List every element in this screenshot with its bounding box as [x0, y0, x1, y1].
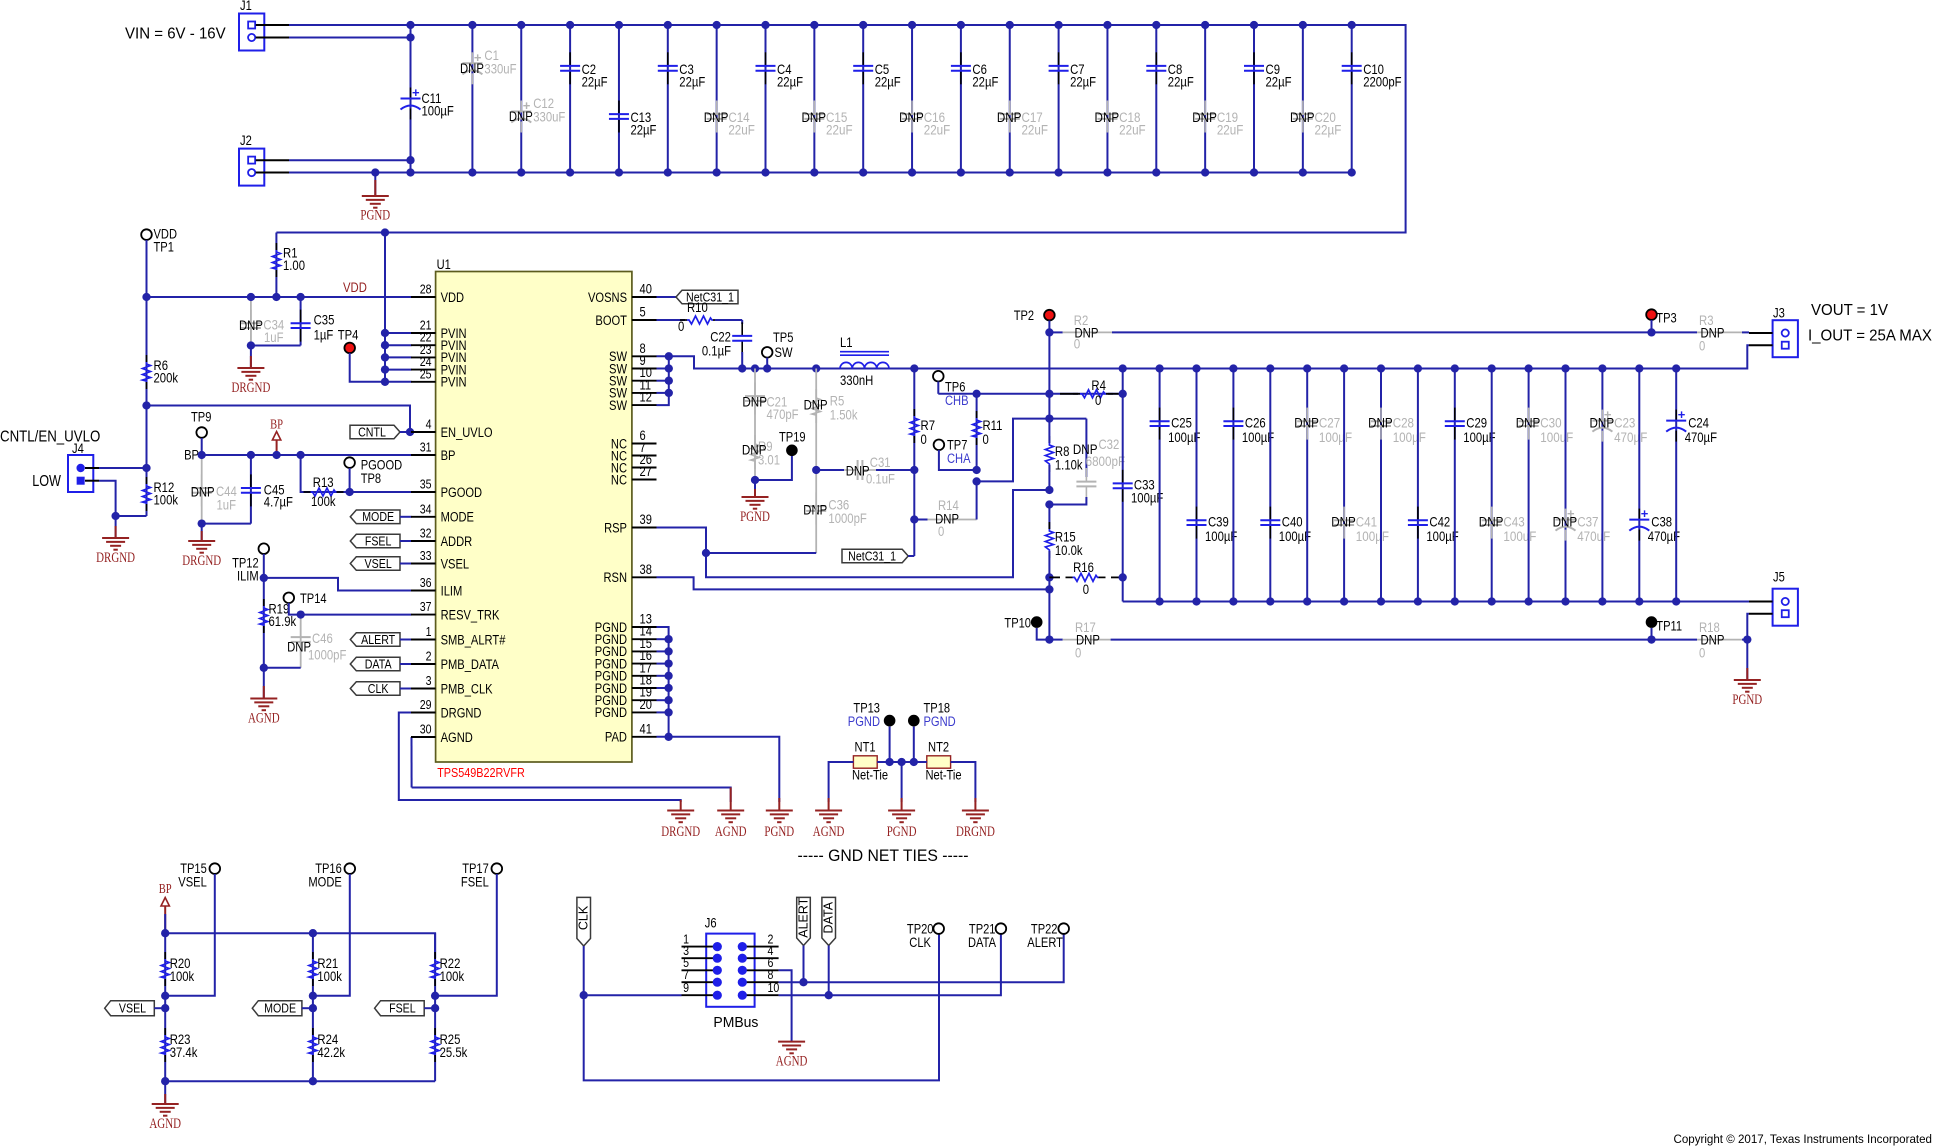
junction — [1192, 364, 1200, 372]
svg-text:330uF: 330uF — [484, 62, 516, 77]
svg-text:DATA: DATA — [822, 901, 836, 933]
pin 22 PVIN — [411, 344, 436, 346]
svg-text:0: 0 — [921, 432, 928, 447]
pin 40 VOSNS — [632, 296, 657, 298]
svg-text:AGND: AGND — [813, 824, 845, 840]
junction — [761, 21, 769, 29]
capacitor C42 — [1417, 369, 1419, 602]
resistor R20 — [164, 933, 166, 996]
resistor R21 — [312, 933, 314, 996]
svg-text:200k: 200k — [154, 371, 179, 386]
wire DATA net — [779, 994, 829, 996]
capacitor C27 (DNP) — [1306, 369, 1308, 602]
resistor R3 (DNP) — [1652, 331, 1698, 333]
capacitor C17 (DNP) — [1009, 25, 1011, 173]
svg-text:AGND: AGND — [248, 711, 280, 727]
junction CHA node — [972, 466, 980, 474]
net tag VSEL — [350, 557, 400, 571]
svg-text:Copyright © 2017, Texas Instru: Copyright © 2017, Texas Instruments Inco… — [1674, 1132, 1933, 1146]
net tag DATA vertical — [822, 897, 836, 945]
svg-text:28: 28 — [420, 282, 432, 297]
resistor R17 (DNP) — [1049, 639, 1062, 641]
test point TP1 — [141, 229, 152, 240]
svg-text:10: 10 — [768, 980, 780, 995]
wire BP net — [202, 454, 412, 456]
wire VDD net — [147, 296, 412, 298]
svg-text:0.1uF: 0.1uF — [866, 472, 895, 487]
svg-text:EN_UVLO: EN_UVLO — [441, 425, 493, 440]
pin 12 SW — [632, 404, 657, 406]
wire net-tie DRGND side — [951, 762, 976, 802]
pin 1 SMB_ALRT# — [411, 639, 436, 641]
junction — [1006, 21, 1014, 29]
capacitor C34 (DNP) — [250, 297, 252, 346]
junction — [1488, 364, 1496, 372]
test point TP7 — [934, 440, 945, 451]
junction — [1598, 364, 1606, 372]
pin 2 PMB_DATA — [411, 663, 436, 665]
svg-text:22µF: 22µF — [875, 75, 901, 90]
svg-text:CNTL/EN_UVLO: CNTL/EN_UVLO — [0, 429, 100, 446]
svg-text:TP9: TP9 — [191, 410, 211, 425]
svg-text:VSEL: VSEL — [441, 556, 470, 571]
pin 30 AGND — [411, 736, 436, 738]
svg-text:TP10: TP10 — [1004, 616, 1031, 631]
ground AGND pin30 — [717, 810, 744, 812]
junction — [1377, 364, 1385, 372]
svg-text:CNTL: CNTL — [358, 425, 386, 439]
wire C34/C35 bottom — [251, 345, 301, 347]
svg-text:TP5: TP5 — [773, 330, 793, 345]
net tag MODE — [252, 1001, 302, 1016]
svg-text:1: 1 — [426, 624, 432, 639]
svg-text:BP: BP — [270, 417, 283, 432]
svg-text:TP2: TP2 — [1014, 308, 1034, 323]
svg-text:PGND: PGND — [595, 705, 627, 720]
svg-text:100uF: 100uF — [1503, 529, 1536, 545]
svg-text:PGND: PGND — [740, 509, 770, 525]
svg-text:25: 25 — [420, 366, 432, 381]
svg-text:1.50k: 1.50k — [830, 408, 858, 423]
junction — [1250, 21, 1258, 29]
wire PGND bottom rail — [289, 172, 1355, 174]
svg-text:DNP: DNP — [1553, 515, 1578, 531]
svg-text:100k: 100k — [317, 969, 342, 984]
svg-text:35: 35 — [420, 477, 432, 492]
junction — [615, 21, 623, 29]
svg-text:VIN = 6V - 16V: VIN = 6V - 16V — [125, 26, 226, 43]
svg-text:22µF: 22µF — [679, 75, 705, 90]
wire DRGND pin29 — [399, 713, 681, 803]
pin 37 RESV_TRK — [411, 614, 436, 616]
svg-text:TP1: TP1 — [154, 240, 174, 255]
resistor R9 (DNP) — [754, 435, 756, 442]
junction VSEL node — [161, 992, 169, 1000]
svg-text:C26: C26 — [1245, 416, 1266, 431]
svg-text:DNP: DNP — [899, 110, 924, 126]
svg-text:DNP: DNP — [704, 110, 729, 126]
net tag NetC31_1 divider — [842, 549, 908, 563]
junction — [713, 21, 721, 29]
pin 4 EN_UVLO — [411, 431, 436, 433]
net tag NetC31_1 VOSNS — [657, 296, 677, 298]
svg-text:CLK: CLK — [368, 682, 389, 696]
junction — [1340, 364, 1348, 372]
svg-text:+: + — [1678, 407, 1686, 422]
pin 21 PVIN — [411, 332, 436, 334]
net tag CLK — [350, 682, 400, 696]
svg-text:1uF: 1uF — [217, 498, 237, 513]
resistor R25 — [434, 996, 436, 1081]
junction — [1201, 21, 1209, 29]
svg-text:AGND: AGND — [149, 1116, 181, 1132]
svg-text:9: 9 — [683, 980, 689, 995]
junction — [1672, 364, 1680, 372]
svg-text:C42: C42 — [1429, 515, 1450, 530]
capacitor C19 (DNP) — [1204, 25, 1206, 173]
capacitor C24 — [1675, 369, 1677, 602]
svg-text:DNP: DNP — [460, 61, 484, 76]
svg-text:J6: J6 — [705, 916, 717, 931]
pin 27 NC — [632, 479, 657, 481]
svg-text:DRGND: DRGND — [661, 824, 700, 840]
capacitor C33 — [1122, 369, 1124, 602]
pin 14 PGND — [632, 638, 657, 640]
svg-text:29: 29 — [420, 697, 432, 712]
wire PGND output rail — [1123, 601, 1749, 603]
svg-text:C38: C38 — [1651, 515, 1672, 530]
svg-text:470pF: 470pF — [767, 407, 799, 422]
svg-text:I_OUT = 25A MAX: I_OUT = 25A MAX — [1808, 328, 1933, 345]
junction PVIN nodes — [381, 228, 389, 236]
ground PGND snubber — [754, 480, 756, 497]
pin 15 PGND — [632, 650, 657, 652]
svg-text:BP: BP — [441, 448, 456, 463]
svg-text:38: 38 — [640, 562, 652, 577]
power flag BP — [276, 440, 278, 455]
svg-text:VDD: VDD — [441, 290, 465, 305]
svg-text:+: + — [412, 85, 420, 100]
svg-text:22µF: 22µF — [1266, 75, 1292, 90]
svg-text:42.2k: 42.2k — [317, 1045, 345, 1060]
pin 13 PGND — [632, 626, 657, 628]
svg-text:ALERT: ALERT — [797, 897, 811, 937]
svg-text:36: 36 — [420, 575, 432, 590]
capacitor C25 — [1159, 369, 1161, 602]
svg-text:DNP: DNP — [1590, 416, 1615, 432]
junction — [1561, 364, 1569, 372]
junction — [1635, 364, 1643, 372]
svg-text:DNP: DNP — [742, 395, 767, 411]
pin 26 NC — [632, 467, 657, 469]
svg-text:DATA: DATA — [968, 935, 997, 950]
ground AGND PMBus — [778, 1041, 805, 1043]
pin 34 MODE — [411, 516, 436, 518]
wire C44/C45 bottom — [202, 523, 251, 525]
svg-text:0: 0 — [678, 319, 685, 334]
capacitor C22 — [741, 320, 743, 324]
pin 17 PGND — [632, 675, 657, 677]
pin 8 SW — [632, 355, 657, 357]
wire TP2 sense — [1048, 321, 1050, 419]
junction divider mid — [1045, 486, 1053, 494]
capacitor C2 — [569, 25, 571, 173]
svg-text:1µF: 1µF — [314, 327, 334, 342]
svg-text:AGND: AGND — [441, 730, 473, 745]
svg-text:61.9k: 61.9k — [269, 614, 297, 629]
svg-text:0: 0 — [1074, 337, 1081, 353]
svg-text:R10: R10 — [687, 300, 708, 315]
svg-text:R13: R13 — [313, 475, 334, 490]
svg-text:C40: C40 — [1282, 515, 1303, 530]
svg-text:SMB_ALRT#: SMB_ALRT# — [441, 632, 506, 647]
capacitor C40 — [1269, 369, 1271, 602]
svg-text:DNP: DNP — [1095, 110, 1120, 126]
svg-text:J5: J5 — [1773, 570, 1785, 585]
svg-text:0: 0 — [1699, 646, 1706, 661]
capacitor C21 (DNP) snubber — [754, 369, 756, 481]
wire PGND pin bus — [657, 627, 669, 737]
pin 18 PGND — [632, 687, 657, 689]
svg-text:PGND: PGND — [764, 824, 794, 840]
wire J5 pin2 — [1747, 614, 1749, 640]
svg-text:MODE: MODE — [264, 1002, 296, 1016]
junction — [1103, 21, 1111, 29]
svg-text:R16: R16 — [1073, 560, 1094, 575]
capacitor C41 (DNP) — [1343, 369, 1345, 602]
pin 19 PGND — [632, 699, 657, 701]
svg-text:22uF: 22uF — [728, 123, 755, 139]
wire ALERT net — [779, 981, 804, 983]
capacitor C30 (DNP) — [1528, 369, 1530, 602]
wire net-tie middle — [877, 761, 927, 763]
svg-text:PAD: PAD — [605, 730, 627, 745]
svg-text:DRGND: DRGND — [956, 824, 995, 840]
capacitor C29 — [1454, 369, 1456, 602]
resistor R19 — [263, 578, 265, 668]
svg-text:J3: J3 — [1773, 306, 1785, 321]
test point TP14 — [284, 593, 295, 604]
svg-text:0.1µF: 0.1µF — [702, 344, 731, 359]
svg-text:22uF: 22uF — [924, 123, 951, 139]
svg-text:DRGND: DRGND — [96, 550, 135, 566]
resistor R10 — [657, 319, 686, 321]
resistor R11 — [976, 394, 978, 470]
junction — [908, 21, 916, 29]
svg-text:PGND: PGND — [887, 824, 917, 840]
wire J1 pin2 — [289, 37, 411, 39]
svg-text:1.10k: 1.10k — [1055, 458, 1083, 473]
svg-text:AGND: AGND — [715, 824, 747, 840]
wire TP16 stem — [313, 874, 350, 996]
junction — [1524, 364, 1532, 372]
svg-text:RSP: RSP — [604, 520, 627, 535]
resistor R22 — [434, 933, 436, 996]
junction — [1348, 21, 1356, 29]
resistor R12 — [146, 406, 148, 517]
svg-text:22uF: 22uF — [1217, 123, 1244, 139]
svg-text:10.0k: 10.0k — [1055, 543, 1083, 558]
svg-text:FSEL: FSEL — [365, 534, 392, 548]
svg-text:DRGND: DRGND — [231, 380, 270, 396]
ground PGND input — [374, 173, 376, 197]
svg-text:LOW: LOW — [32, 473, 61, 490]
svg-text:100k: 100k — [154, 493, 179, 508]
svg-text:DNP: DNP — [1192, 110, 1217, 126]
junction J1/C11 nodes — [406, 21, 414, 29]
wire RSN — [657, 577, 1050, 589]
pin 28 VDD — [411, 296, 436, 298]
svg-text:33: 33 — [420, 548, 432, 563]
svg-text:22uF: 22uF — [1119, 123, 1146, 139]
svg-text:R4: R4 — [1091, 378, 1106, 393]
svg-text:ALERT: ALERT — [1027, 935, 1063, 950]
svg-text:22µF: 22µF — [1168, 75, 1194, 90]
ground DRGND J4 — [115, 516, 117, 538]
wire C46 bottom — [264, 667, 301, 669]
junction — [1229, 364, 1237, 372]
svg-text:+: + — [1641, 506, 1649, 521]
junction — [1054, 21, 1062, 29]
junction — [468, 21, 476, 29]
svg-text:PMB_DATA: PMB_DATA — [441, 657, 499, 672]
svg-text:TPS549B22RVFR: TPS549B22RVFR — [437, 765, 525, 780]
svg-text:C31: C31 — [870, 455, 891, 470]
svg-text:J2: J2 — [240, 133, 252, 148]
svg-text:DRGND: DRGND — [182, 553, 221, 569]
resistor R18 (DNP) — [1652, 639, 1698, 641]
svg-text:ILIM: ILIM — [441, 583, 463, 598]
svg-text:DNP: DNP — [239, 318, 263, 333]
svg-text:100k: 100k — [311, 494, 336, 509]
capacitor C26 — [1232, 369, 1234, 602]
svg-text:20: 20 — [640, 697, 652, 712]
pin 16 PGND — [632, 663, 657, 665]
wire VIN top rail — [276, 25, 1405, 233]
svg-text:22µF: 22µF — [1315, 123, 1342, 139]
capacitor C6 — [960, 25, 962, 173]
pin 29 DRGND — [411, 712, 436, 714]
capacitor C44 (DNP) — [201, 455, 203, 524]
svg-text:R5: R5 — [830, 394, 845, 409]
capacitor C35 — [300, 297, 302, 346]
capacitor C8 — [1155, 25, 1157, 173]
svg-text:Net-Tie: Net-Tie — [852, 768, 888, 783]
wire TP15 stem — [165, 874, 215, 996]
svg-text:PGND: PGND — [360, 208, 390, 224]
capacitor C3 — [667, 25, 669, 173]
junction MODE node — [309, 992, 317, 1000]
resistor R15 — [1048, 505, 1050, 530]
svg-text:PVIN: PVIN — [441, 375, 467, 390]
svg-text:FSEL: FSEL — [389, 1002, 416, 1016]
wire CHA to divider — [977, 419, 1087, 482]
svg-text:NT2: NT2 — [928, 740, 949, 755]
capacitor C31 (DNP) — [844, 469, 857, 471]
pin 11 SW — [632, 392, 657, 394]
svg-text:L1: L1 — [840, 335, 853, 350]
junction — [1414, 364, 1422, 372]
svg-text:DNP: DNP — [803, 503, 827, 518]
svg-text:22uF: 22uF — [1021, 123, 1048, 139]
wire BP row — [165, 933, 435, 958]
pin 35 PGOOD — [411, 491, 436, 493]
power flag BP bottom — [164, 906, 166, 933]
capacitor C5 — [862, 25, 864, 173]
svg-text:DNP: DNP — [997, 110, 1022, 126]
svg-text:1.00: 1.00 — [283, 258, 305, 273]
wire RSP — [657, 528, 707, 554]
svg-text:22µF: 22µF — [972, 75, 998, 90]
capacitor C7 — [1058, 25, 1060, 173]
wire EN_UVLO — [147, 406, 412, 433]
svg-text:VSEL: VSEL — [365, 557, 392, 571]
svg-text:40: 40 — [640, 282, 652, 297]
svg-text:31: 31 — [420, 440, 432, 455]
test point TP8 — [344, 457, 355, 468]
svg-text:1uF: 1uF — [264, 330, 284, 345]
svg-text:22µF: 22µF — [582, 75, 608, 90]
wire ILIM — [264, 578, 412, 591]
net tag FSEL — [350, 534, 400, 548]
svg-text:TP14: TP14 — [300, 591, 327, 606]
capacitor C14 (DNP) — [716, 25, 718, 173]
resistor R8 — [1048, 436, 1050, 443]
pin 9 SW — [632, 368, 657, 370]
svg-text:0: 0 — [1083, 582, 1090, 597]
svg-text:470uF: 470uF — [1577, 529, 1610, 545]
resistor R23 — [164, 996, 166, 1081]
svg-text:ILIM: ILIM — [237, 569, 259, 584]
svg-text:DNP: DNP — [509, 109, 533, 124]
capacitor C15 (DNP) — [813, 25, 815, 173]
resistor R5 (DNP) — [815, 369, 817, 471]
svg-text:470µF: 470µF — [1685, 430, 1717, 445]
ground AGND net-tie — [815, 810, 842, 812]
svg-text:DNP: DNP — [191, 485, 215, 500]
wire SW node — [669, 356, 915, 368]
capacitor C28 (DNP) — [1380, 369, 1382, 602]
svg-text:TP3: TP3 — [1656, 311, 1676, 326]
svg-text:BP: BP — [159, 881, 172, 896]
svg-text:330nH: 330nH — [840, 373, 873, 388]
svg-text:J1: J1 — [240, 0, 252, 13]
svg-text:C29: C29 — [1466, 416, 1487, 431]
svg-text:0: 0 — [1699, 339, 1706, 354]
svg-text:CLK: CLK — [577, 905, 591, 930]
svg-text:4.7µF: 4.7µF — [264, 495, 293, 510]
capacitor C18 (DNP) — [1106, 25, 1108, 173]
svg-text:12: 12 — [640, 390, 652, 405]
junction — [1303, 364, 1311, 372]
svg-text:C39: C39 — [1208, 515, 1229, 530]
wire J4 pin1 — [99, 467, 147, 469]
svg-text:3.01: 3.01 — [758, 453, 780, 468]
pin 33 VSEL — [411, 563, 436, 565]
capacitor C9 — [1253, 25, 1255, 173]
wire PAD to ground — [657, 737, 780, 802]
svg-text:BP: BP — [184, 448, 199, 463]
svg-text:RESV_TRK: RESV_TRK — [441, 607, 500, 622]
svg-text:DNP: DNP — [1368, 416, 1393, 432]
junction — [664, 21, 672, 29]
ground PGND pad — [766, 810, 793, 812]
svg-text:VDD: VDD — [343, 280, 367, 295]
svg-text:22µF: 22µF — [1070, 75, 1096, 90]
svg-text:SW: SW — [609, 398, 627, 413]
resistor R7 — [913, 369, 915, 471]
svg-text:DNP: DNP — [1516, 416, 1541, 432]
